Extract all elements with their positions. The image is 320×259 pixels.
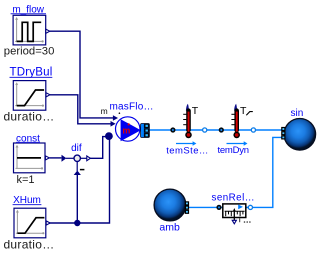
- svg-text:temDyn: temDyn: [218, 145, 249, 156]
- svg-text:m: m: [122, 126, 130, 136]
- svg-text:T: T: [192, 105, 199, 117]
- svg-text:TDryBul: TDryBul: [10, 67, 53, 79]
- svg-text:T: T: [240, 105, 247, 117]
- svg-text:senRel…: senRel…: [212, 192, 255, 203]
- svg-text:duratio…: duratio…: [3, 237, 54, 251]
- svg-text:amb: amb: [159, 221, 180, 233]
- svg-text:period=30: period=30: [4, 45, 55, 57]
- svg-text:k=1: k=1: [16, 174, 34, 186]
- svg-text:sin: sin: [291, 108, 304, 119]
- svg-text:duratio…: duratio…: [3, 109, 54, 123]
- svg-text:masFlo…: masFlo…: [110, 101, 154, 112]
- svg-text:m: m: [101, 106, 108, 116]
- svg-text:dif: dif: [71, 143, 82, 154]
- svg-text:temSte…: temSte…: [166, 146, 209, 157]
